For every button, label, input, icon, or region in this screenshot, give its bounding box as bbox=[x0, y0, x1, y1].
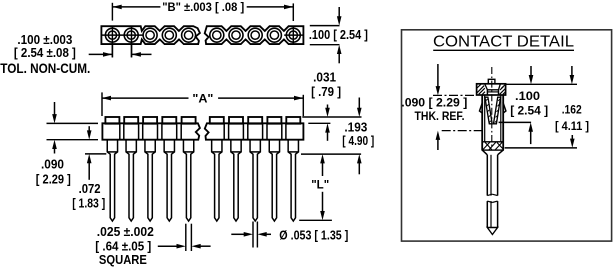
dim .072 arrows bbox=[87, 126, 92, 180]
dim text .072 bbox=[79, 181, 101, 196]
contact detail border box bbox=[402, 30, 612, 241]
top view insulator strip outline (left section with break) bbox=[101, 26, 199, 44]
svg-text:"B" ±.003 [ .08 ]: "B" ±.003 [ .08 ] bbox=[162, 0, 244, 14]
contact dim top extension line bbox=[506, 83, 577, 85]
retention barb left bbox=[480, 103, 483, 114]
svg-text:"L": "L" bbox=[311, 178, 329, 192]
dim text .025 +/-.002 bbox=[97, 224, 154, 239]
thickness reference phantom lines (dash-dot) bbox=[433, 95, 482, 130]
strip width dim extension lines bbox=[310, 26, 340, 45]
contact tail lower segment with point bbox=[487, 201, 497, 234]
dim text [2.54] (contact) bbox=[510, 104, 548, 118]
solder tail pins with shoulders (10) bbox=[107, 140, 298, 221]
contact position divider lines inside body bbox=[120, 123, 286, 139]
body top extension line right bbox=[308, 122, 330, 124]
side view insulator body right section bbox=[205, 123, 304, 139]
pitch dimension text TOL. NON-CUM. bbox=[0, 61, 90, 76]
svg-text:[ 1.83 ]: [ 1.83 ] bbox=[72, 196, 105, 211]
contact taper to tail bbox=[482, 150, 503, 155]
contact top tab bbox=[488, 79, 495, 84]
svg-text:.090 [ 2.29 ]: .090 [ 2.29 ] bbox=[401, 95, 467, 109]
top view insulator strip outline (right section with break) bbox=[205, 26, 304, 44]
strip width dim arrows bbox=[337, 7, 342, 63]
svg-text:[ 2.54 ]: [ 2.54 ] bbox=[510, 104, 548, 118]
dim text .162 (contact) bbox=[562, 103, 582, 117]
dim .090 THK arrows bbox=[436, 64, 441, 150]
contact tail upper segment bbox=[487, 155, 497, 196]
dimension text A bbox=[192, 91, 213, 105]
dim text SQUARE bbox=[99, 252, 147, 267]
svg-text:[ 2.54 ±.08 ]: [ 2.54 ±.08 ] bbox=[14, 45, 76, 60]
dimension B extension line left (hole 1 center) bbox=[111, 3, 113, 21]
pitch dimension text [2.54 +/-.08] bbox=[14, 45, 76, 60]
svg-text:.090: .090 bbox=[41, 157, 64, 172]
pitch dimension arrows .100 pitch bbox=[89, 52, 152, 57]
contact entry flange outline bbox=[477, 84, 506, 95]
dim text [4.11] (contact) bbox=[555, 119, 589, 133]
svg-text:Ø .053 [ 1.35 ]: Ø .053 [ 1.35 ] bbox=[279, 228, 348, 243]
svg-text:.072: .072 bbox=[79, 181, 101, 196]
centerline crosshair through hole 10 bbox=[284, 26, 303, 44]
square dim extension lines at pin 5 bbox=[186, 224, 192, 251]
pin tip extension line bbox=[299, 219, 332, 221]
dimension line A with outward arrows bbox=[102, 96, 304, 101]
dim L bottom arrow bbox=[320, 192, 325, 221]
svg-text:[ .79 ]: [ .79 ] bbox=[311, 84, 341, 99]
dim text .031 bbox=[313, 70, 336, 85]
diameter dim extension lines at pin 8 bbox=[253, 222, 257, 248]
dim .162 arrows (contact) bbox=[570, 66, 575, 148]
svg-text:.100: .100 bbox=[515, 89, 540, 103]
contact dim .100 bottom extension line bbox=[499, 121, 531, 123]
dim .090 arrows bbox=[52, 102, 57, 154]
dim L top arrow bbox=[320, 154, 325, 176]
centerline crosshair through holes 1 and 2 bbox=[102, 26, 143, 57]
svg-text:[ 4.90 ]: [ 4.90 ] bbox=[342, 133, 374, 148]
dimension line B with outward arrows bbox=[112, 5, 293, 10]
diameter dim arrows bbox=[231, 232, 271, 237]
svg-text:[ .64 ±.05 ]: [ .64 ±.05 ] bbox=[95, 238, 151, 253]
svg-text:[ 2.29 ]: [ 2.29 ] bbox=[36, 171, 71, 186]
side view contact posts on top of body (10) bbox=[105, 117, 300, 124]
dim text [4.90] bbox=[342, 133, 374, 148]
dim text THK. REF. bbox=[415, 109, 465, 123]
body top/bottom extension lines left side bbox=[47, 123, 99, 139]
dim text .090 bbox=[41, 157, 64, 172]
svg-text:SQUARE: SQUARE bbox=[99, 252, 147, 267]
flange hatching left bbox=[477, 84, 485, 94]
contact body outer walls bbox=[482, 95, 503, 150]
dimension B extension line right (hole 10 center) bbox=[292, 3, 294, 21]
dim .100 arrows (contact) bbox=[528, 66, 533, 144]
dimension A extension line right bbox=[302, 95, 304, 116]
retention barb right bbox=[503, 103, 506, 114]
svg-text:CONTACT DETAIL: CONTACT DETAIL bbox=[433, 34, 574, 51]
svg-text:.025 ±.002: .025 ±.002 bbox=[97, 224, 154, 239]
svg-text:[ 4.11 ]: [ 4.11 ] bbox=[555, 119, 589, 133]
dim text [.64 +/-.05] bbox=[95, 238, 151, 253]
spring finger left (hatched) bbox=[485, 97, 492, 124]
post top extension line right bbox=[302, 116, 361, 118]
contact body inner walls bbox=[485, 95, 501, 142]
strip width dim text .100 [2.54] bbox=[309, 27, 368, 42]
svg-text:TOL. NON-CUM.: TOL. NON-CUM. bbox=[0, 61, 90, 76]
dim text .100 (contact) bbox=[515, 89, 540, 103]
dimension A extension line left bbox=[101, 92, 103, 116]
svg-text:.162: .162 bbox=[562, 103, 582, 117]
contact detail title bbox=[433, 34, 574, 51]
svg-text:THK. REF.: THK. REF. bbox=[415, 109, 465, 123]
dim text diameter .053 [1.35] bbox=[279, 228, 348, 243]
dim .031 arrows bbox=[325, 105, 330, 141]
svg-text:"A": "A" bbox=[192, 91, 213, 105]
dimension text B +/-.003 [.08] bbox=[162, 0, 244, 14]
dim text [1.83] bbox=[72, 196, 105, 211]
pitch dimension extension lines below holes 1 and 2 bbox=[112, 44, 131, 57]
spring finger right (hatched) bbox=[494, 97, 501, 124]
dim .193 arrows bbox=[357, 98, 362, 175]
dim text .090 [2.29] THK bbox=[401, 95, 467, 109]
socket hole circles (outer and inner), positions 1-10 bbox=[105, 28, 300, 42]
dim text L bbox=[311, 178, 329, 192]
svg-text:.100 [ 2.54 ]: .100 [ 2.54 ] bbox=[309, 27, 368, 42]
dim text [.79] bbox=[311, 84, 341, 99]
contact dim .162 bottom extension line bbox=[505, 147, 577, 149]
pin top extension line right bbox=[301, 153, 361, 155]
dim text .193 bbox=[344, 120, 367, 135]
pin top extension line left bbox=[85, 153, 106, 155]
square dim arrows bbox=[158, 244, 211, 249]
svg-text:.031: .031 bbox=[313, 70, 336, 85]
contact centerline (dash-dot) bbox=[491, 67, 493, 148]
dim text [2.29] bbox=[36, 171, 71, 186]
flange hatching right bbox=[500, 85, 506, 95]
flange entry funnel chamfer bbox=[485, 84, 501, 95]
side view insulator body left section bbox=[102, 123, 199, 139]
pitch dimension text .100 +/-.003 bbox=[17, 32, 72, 47]
contact crimp section (hatched) bbox=[482, 142, 503, 150]
